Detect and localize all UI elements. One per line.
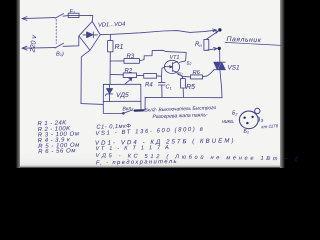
switch B1 lower pole blade [55,43,64,48]
wire contact up to bottom rail [143,97,145,110]
resistor R3 [110,60,124,62]
capacitor C1 [161,76,163,82]
svg-text:Rн: Rн [195,42,202,48]
resistor R4 [137,74,144,76]
svg-text:VT1: VT1 [170,55,180,61]
svg-text:R4: R4 [145,82,153,88]
KT117 emitter pointer [258,117,261,122]
load heater Rn box [204,39,209,50]
KT117 pinout circle [239,111,258,129]
wire VD5 box right corner down to contact [140,101,142,110]
svg-text:Паяльник: Паяльник [226,36,261,44]
wire lower mains input with arrow [22,47,55,50]
transistor VT1 unijunction body [164,60,179,73]
left black pillarbox bar [0,0,20,168]
svg-text:Б2: Б2 [232,111,238,117]
svg-text:В1): В1) [56,51,64,57]
node upper plug socket [218,28,221,31]
svg-text:ника.: ника. [222,119,234,125]
wire Rn top lead to upper plug pin [206,31,218,39]
switch Vkl2 blade and contact [123,112,125,114]
svg-text:С1: С1 [166,85,172,91]
wire VD5 box left corner down to switch [103,101,123,113]
svg-text:R6: R6 [193,70,201,76]
paper background [0,0,300,168]
svg-text:R1: R1 [115,44,124,51]
svg-text:Б1: Б1 [178,71,183,77]
switch B1 gang dashed link [55,20,57,44]
resistor R5 [181,76,183,78]
wire left bus down [109,61,111,84]
underline for soldering iron label [225,42,281,45]
zener diode VD5 box [103,84,141,101]
fuse F1 [68,13,79,17]
svg-text:Б2: Б2 [187,60,192,66]
wire bottom rail [145,96,222,98]
wire upper mains input with arrow [22,18,55,19]
resistor R6 [182,75,190,78]
wire triac cathode to bottom rail [220,70,222,98]
wire triac gate [213,69,215,72]
wire switch to fuse [63,15,68,18]
node lower plug socket [218,47,221,50]
triac VS1 [219,49,221,62]
zener diode VD5 symbol [109,84,111,88]
svg-text:R5: R5 [186,84,195,91]
switch B1 upper pole blade [55,14,64,19]
resistor R1 [109,34,111,40]
wire Rn bottom lead to lower plug pin [206,49,216,51]
svg-text:Вкл2: Вкл2 [122,106,134,113]
wire staircase R3 to base B2 [144,50,186,62]
svg-text:R2: R2 [125,69,133,75]
wire VT1 emitter to R4/C1 node [162,67,165,77]
right black pillarbox bar [280,0,300,168]
KT117 pin dots [243,117,245,119]
svg-text:VS1: VS1 [228,64,241,71]
wire fuse to bridge top [79,15,93,21]
wire VT1 base1 down to R5/R6 node [177,72,183,76]
svg-text:F1: F1 [70,9,76,15]
resistor R2 variable [110,73,123,75]
svg-text:VД5: VД5 [116,92,129,99]
svg-text:R3: R3 [127,54,135,60]
KT117 case tab [255,108,260,113]
svg-text:Б1: Б1 [244,129,250,135]
wire DC+ rail from bridge to plug [100,30,215,35]
bridge inner diode symbol [83,34,97,36]
svg-text:VD1...VD4: VD1...VD4 [98,22,126,29]
bridge rectifier VD1-VD4 diamond [79,21,100,50]
wire switch B1 to bridge left vertex [63,36,79,46]
wire bridge minus down to bottom [81,50,103,104]
